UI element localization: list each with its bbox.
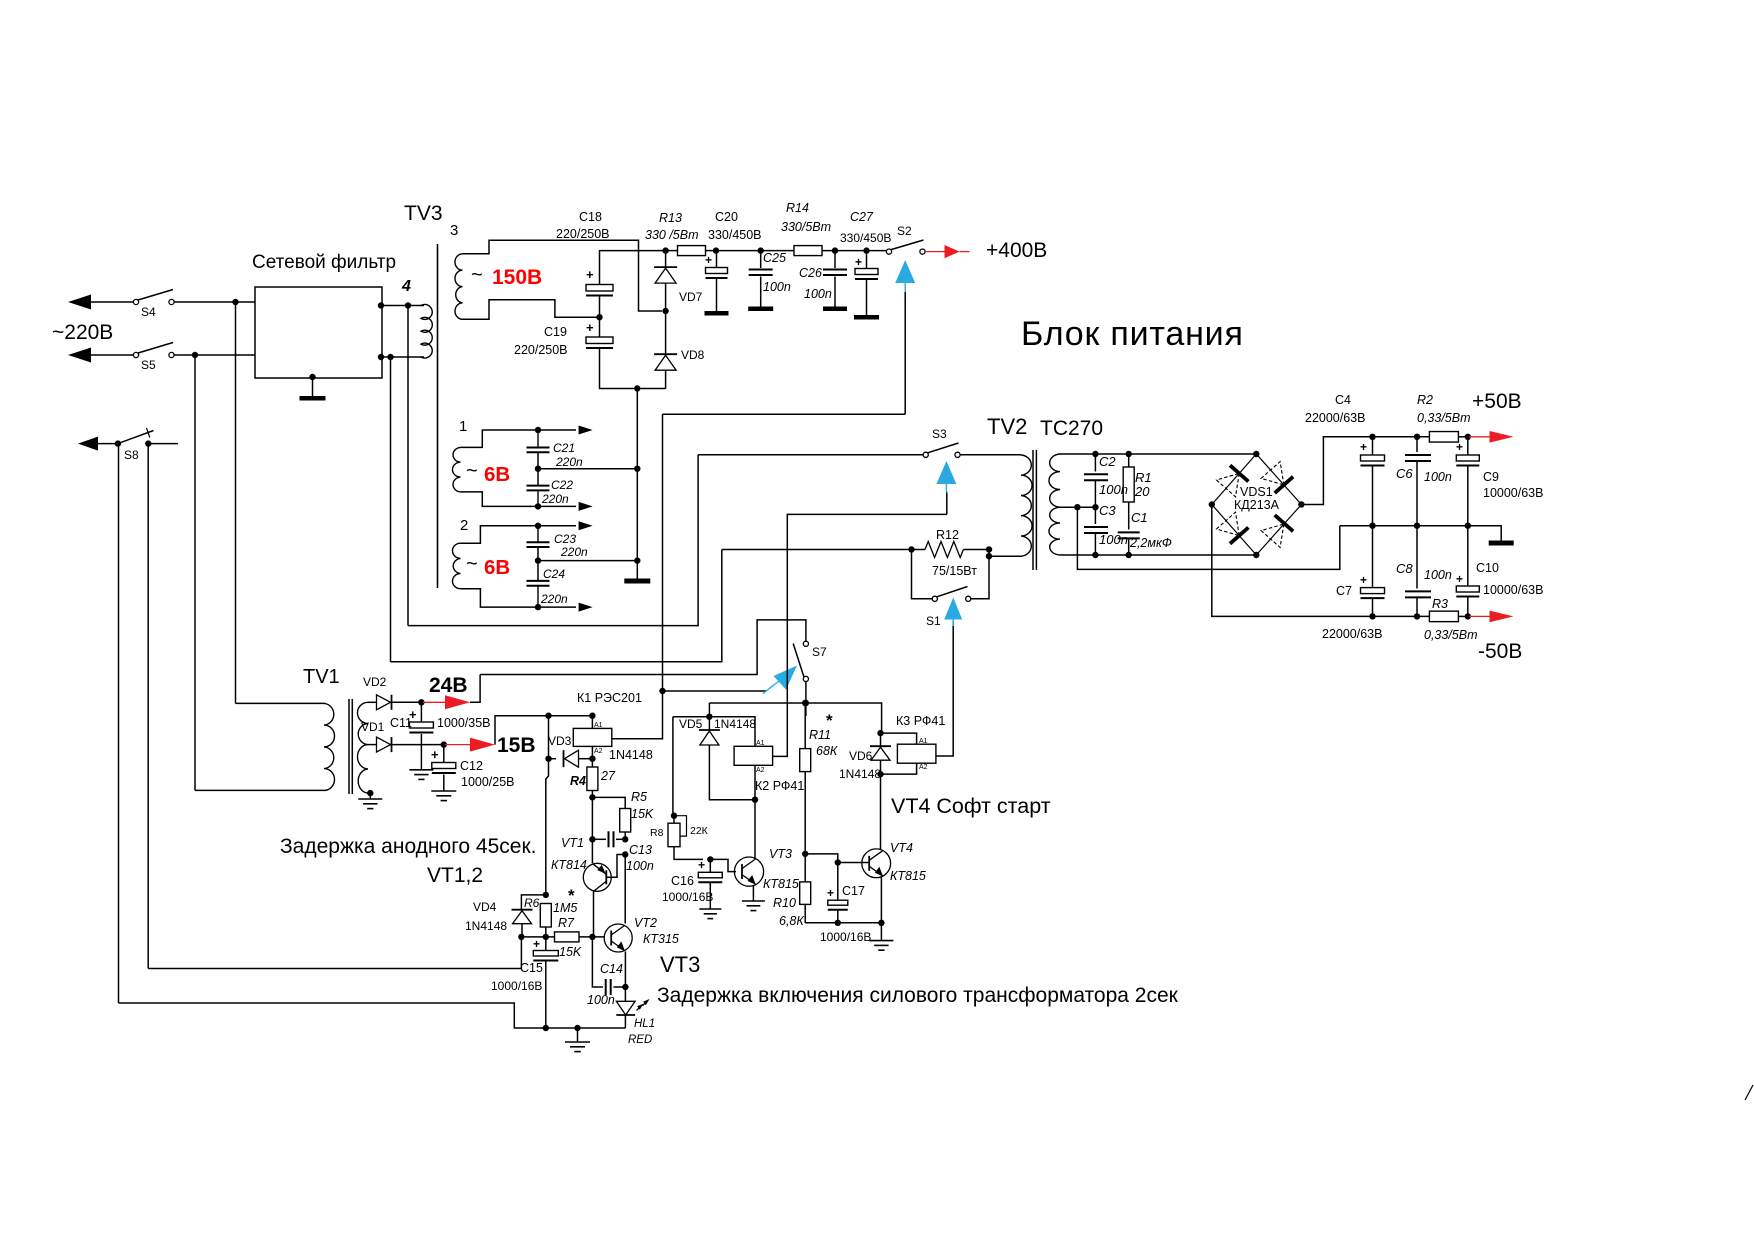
resistor R12 zigzag — [925, 542, 963, 558]
node C27 junction — [863, 247, 869, 253]
wire R5C13 net down to VT2 collector — [624, 855, 626, 924]
svg-text:1N4148: 1N4148 — [839, 767, 881, 781]
wire VD5 down — [709, 745, 755, 800]
node 24V — [418, 699, 424, 705]
wire mid to ground — [1468, 526, 1501, 541]
node 6V1 bottom — [535, 503, 541, 509]
wire 6V2 top — [461, 526, 577, 543]
wire filter to TV3 primary top — [382, 305, 424, 307]
node ~220V arrow top — [68, 295, 91, 310]
node VD4 bottom — [518, 934, 524, 940]
svg-text:VD2: VD2 — [363, 675, 387, 689]
blue arrow S7 — [774, 666, 798, 690]
svg-text:~: ~ — [471, 264, 483, 286]
wire 6V1 top — [461, 430, 577, 447]
red wire 15V — [445, 744, 470, 746]
svg-text:100n: 100n — [1099, 532, 1128, 547]
svg-text:КТ815: КТ815 — [763, 877, 799, 891]
svg-text:C11: C11 — [390, 716, 412, 730]
svg-text:C13: C13 — [629, 843, 652, 857]
node C7 bottom — [1369, 613, 1375, 619]
resistor R5 — [620, 809, 631, 833]
svg-text:330/450В: 330/450В — [840, 231, 891, 245]
svg-text:VD7: VD7 — [679, 290, 703, 304]
svg-text:VT2: VT2 — [634, 916, 657, 930]
wire R12 left node — [722, 549, 925, 551]
relay K1 — [573, 728, 612, 746]
svg-text:R13: R13 — [659, 211, 682, 225]
arrow 6V2 top — [579, 521, 593, 530]
wire K1 A2 pin — [591, 746, 593, 758]
arrow 6V2 bottom — [579, 603, 593, 612]
node C18-C19 junction — [596, 314, 602, 320]
svg-text:75/15Вт: 75/15Вт — [932, 564, 977, 578]
svg-text:TV3: TV3 — [404, 202, 443, 225]
wire drop x390 — [390, 357, 392, 662]
wire VD8 anode down — [665, 371, 667, 389]
svg-text:A1: A1 — [594, 722, 603, 729]
node C8 bottom — [1414, 613, 1420, 619]
svg-text:1000/16В: 1000/16В — [662, 890, 713, 904]
svg-text:+: + — [705, 253, 712, 267]
node K1 A1 rail — [589, 713, 595, 719]
svg-text:C7: C7 — [1336, 584, 1352, 598]
svg-text:330 /5Вт: 330 /5Вт — [645, 228, 699, 242]
resistor R8 rheostat — [673, 816, 675, 824]
bridge diode bottom-right — [1261, 524, 1284, 547]
bridge VDS1 frame — [1212, 454, 1302, 555]
svg-text:100n: 100n — [804, 287, 832, 301]
wire K1 A1 pin — [591, 716, 593, 729]
svg-text:*: * — [568, 886, 575, 905]
svg-text:100n: 100n — [763, 280, 791, 294]
diode VD3 — [549, 758, 557, 760]
wire C21-C22 — [537, 452, 539, 485]
transistor VT1 — [583, 863, 611, 891]
svg-text:10000/63В: 10000/63В — [1483, 583, 1543, 597]
node C3 bottom — [1092, 552, 1098, 558]
transformer TV1 primary winding — [324, 703, 335, 790]
node R12 right — [986, 546, 992, 552]
node C15 bottom — [543, 1025, 549, 1031]
long vertical from S8 right — [147, 444, 149, 969]
svg-text:20: 20 — [1134, 484, 1150, 499]
svg-text:C24: C24 — [543, 567, 565, 581]
transformer TV3 winding 150V — [455, 254, 463, 319]
svg-text:C1: C1 — [1131, 510, 1148, 525]
svg-text:220n: 220n — [560, 545, 588, 559]
svg-text:VT4: VT4 — [890, 841, 913, 855]
svg-text:S5: S5 — [141, 358, 156, 372]
svg-text:VT3: VT3 — [660, 952, 700, 977]
svg-text:R6: R6 — [524, 896, 540, 910]
node 15V — [441, 741, 447, 747]
arrow +50V — [1490, 431, 1514, 443]
relay K3 — [897, 744, 936, 763]
wire R12 net down — [391, 550, 722, 662]
wire VT1 emitter — [591, 839, 593, 863]
capacitor C4 — [1372, 437, 1374, 455]
node R13 out — [713, 247, 719, 253]
svg-text:C8: C8 — [1396, 561, 1413, 576]
resistor R13 — [666, 250, 678, 252]
switch S1 — [932, 596, 937, 601]
LED HL1 — [616, 1001, 635, 1015]
resistor R3 — [1429, 611, 1458, 622]
wire VD4 net to left — [148, 937, 521, 969]
wire K1 line to S7 arrow — [663, 690, 767, 692]
wire filter to TV3 primary bottom — [382, 356, 424, 358]
wire TV1 sec top to VD2 — [368, 701, 376, 703]
node ~220V arrow bottom — [68, 348, 91, 363]
node C25 junction — [758, 247, 764, 253]
transistor VT4 — [862, 849, 891, 878]
svg-text:C12: C12 — [460, 759, 483, 773]
svg-text:S4: S4 — [141, 305, 156, 319]
wire R10 bottom rail — [804, 904, 806, 922]
svg-text:2: 2 — [460, 517, 468, 534]
wire VD7 to junction — [665, 284, 667, 312]
node VD7-VD8 junction — [662, 308, 668, 314]
svg-text:1N4148: 1N4148 — [609, 748, 653, 762]
resistor R11 — [804, 703, 806, 749]
svg-text:100n: 100n — [1099, 482, 1128, 497]
capacitor C18 — [586, 285, 613, 292]
wire down to K1 right — [612, 691, 663, 739]
node C13 left — [589, 836, 595, 842]
svg-text:15K: 15K — [631, 807, 654, 821]
node VT4 emitter rail — [878, 920, 884, 926]
node R4 bottom — [589, 794, 595, 800]
wire S3 left feed — [698, 454, 923, 456]
ground VT4 — [880, 923, 882, 941]
wire drop x408 — [407, 306, 409, 626]
node R6 top — [543, 892, 549, 898]
transformer TV3 winding 6V-2 — [452, 543, 460, 589]
svg-text:C18: C18 — [579, 210, 602, 224]
svg-text:S2: S2 — [897, 224, 912, 238]
transformer TV2 core — [1032, 450, 1034, 570]
svg-text:+: + — [827, 886, 834, 900]
wire VT1 base step — [607, 855, 626, 878]
wire vertical to K1 contact line — [662, 414, 664, 691]
node 6V1 tap — [535, 466, 541, 472]
arrow 24V — [445, 695, 470, 709]
svg-text:+: + — [586, 267, 594, 282]
wire R11 down — [804, 772, 806, 882]
wire drop from S4 line — [235, 302, 237, 703]
svg-text:К3 РФ41: К3 РФ41 — [896, 714, 945, 728]
node C17 bottom — [835, 920, 841, 926]
wire S4 to filter — [174, 301, 255, 303]
svg-text:6,8К: 6,8К — [779, 914, 804, 928]
wire S3 to TV2 — [960, 454, 1021, 456]
svg-text:Задержка анодного 45сек.: Задержка анодного 45сек. — [280, 835, 536, 858]
wire 6V2 bottom — [461, 589, 577, 607]
diode VD8 — [654, 353, 677, 355]
node C9 mid — [1465, 523, 1471, 529]
transformer TV3 primary winding — [421, 304, 432, 358]
svg-text:150В: 150В — [492, 266, 542, 289]
svg-text:C20: C20 — [715, 210, 738, 224]
ground bottom rail — [577, 1028, 579, 1042]
bridge diode left-bottom — [1217, 512, 1240, 535]
wire K2 A1 pin — [754, 728, 756, 746]
capacitor C22 — [527, 485, 550, 487]
node VT4 base branch — [802, 851, 808, 857]
ground C16 — [699, 908, 721, 910]
node 6V2 bottom — [535, 604, 541, 610]
red wire +50V — [1469, 436, 1490, 438]
svg-text:+400В: +400В — [986, 239, 1047, 262]
wire TV1 sec bottom — [368, 792, 370, 794]
wire tap — [1060, 506, 1095, 508]
blue arrow S3 — [936, 461, 956, 484]
capacitor C12 — [443, 745, 445, 763]
svg-text:C9: C9 — [1483, 470, 1499, 484]
node R12 left — [908, 546, 914, 552]
blue arrow at S2 — [895, 260, 915, 283]
svg-text:VT1: VT1 — [561, 836, 584, 850]
svg-text:6В: 6В — [484, 556, 510, 579]
svg-text:Задержка включения силового тр: Задержка включения силового трансформато… — [657, 984, 1179, 1007]
svg-text:R1: R1 — [1135, 470, 1152, 485]
wire S1 net down to K3 — [936, 621, 953, 756]
svg-text:~: ~ — [466, 553, 478, 575]
node TV2 prim bottom — [986, 553, 992, 559]
svg-text:0,33/5Вт: 0,33/5Вт — [1417, 411, 1471, 425]
svg-text:VT3: VT3 — [769, 847, 792, 861]
svg-text:C21: C21 — [553, 441, 575, 455]
mark bottom right — [1745, 1085, 1753, 1100]
node VD5 top junction — [706, 714, 712, 720]
node junction S5 line — [192, 352, 198, 358]
svg-text:C6: C6 — [1396, 466, 1413, 481]
node R2 out — [1465, 434, 1471, 440]
svg-text:КТ315: КТ315 — [643, 932, 679, 946]
svg-text:ТС270: ТС270 — [1040, 417, 1103, 440]
wire K3 A2 — [881, 763, 917, 774]
node C8 mid — [1414, 523, 1420, 529]
capacitor C9 — [1467, 437, 1469, 455]
svg-text:TV2: TV2 — [987, 414, 1027, 439]
wire R4 to R5 — [592, 797, 625, 808]
node TV1 sec gnd — [367, 790, 373, 796]
node C1 bottom — [1126, 552, 1132, 558]
resistor R6 — [540, 904, 551, 928]
svg-text:24В: 24В — [429, 674, 468, 697]
wire S1 left leg — [912, 550, 933, 599]
ground 0V — [1489, 541, 1514, 546]
svg-text:VD4: VD4 — [473, 900, 497, 914]
svg-text:VDS1: VDS1 — [1240, 485, 1273, 499]
wire net to K2 A1 — [673, 717, 755, 729]
node bottom rail junction — [634, 385, 640, 391]
diode VD6 — [880, 733, 882, 746]
node R3 out — [1465, 613, 1471, 619]
node bridge bottom — [1253, 552, 1259, 558]
bridge diode left-top — [1217, 473, 1240, 496]
node tap2 at vertical — [634, 557, 640, 563]
node K1 A2 — [589, 756, 595, 762]
resistor R2 — [1429, 432, 1458, 443]
svg-text:~220В: ~220В — [52, 321, 113, 344]
svg-text:C26: C26 — [799, 266, 822, 280]
svg-text:+: + — [855, 255, 862, 269]
svg-text:R14: R14 — [786, 201, 809, 215]
resistor R4 — [591, 759, 593, 767]
wire VT4 emitter — [880, 876, 882, 922]
svg-text:2,2мкФ: 2,2мкФ — [1129, 536, 1172, 550]
svg-text:Сетевой фильтр: Сетевой фильтр — [252, 252, 396, 273]
wire C18 top to R13 node — [600, 251, 664, 285]
switch S5 — [133, 352, 138, 357]
node VD6 top — [877, 730, 883, 736]
wire TV1 sec tap to VD1 — [368, 744, 376, 746]
switch S7 — [803, 641, 808, 646]
switch S2 — [886, 249, 891, 254]
mid rail 0V — [1340, 525, 1468, 527]
svg-text:-50В: -50В — [1478, 640, 1522, 663]
svg-text:R3: R3 — [1432, 597, 1448, 611]
capacitor C21 — [527, 447, 550, 449]
svg-text:220/250В: 220/250В — [514, 343, 568, 357]
wire HL1 down — [624, 1015, 626, 1028]
resistor R7 — [521, 936, 554, 938]
node junction S4 line — [232, 299, 238, 305]
svg-text:S1: S1 — [926, 614, 941, 628]
svg-text:C15: C15 — [520, 961, 543, 975]
svg-text:S7: S7 — [812, 645, 827, 659]
svg-text:15В: 15В — [497, 734, 536, 757]
capacitor C14 — [605, 979, 607, 995]
wire R4 down to VT1 — [591, 797, 593, 839]
node C4 mid — [1369, 523, 1375, 529]
capacitor C10 — [1467, 526, 1469, 586]
svg-text:R8: R8 — [650, 827, 664, 839]
svg-text:3: 3 — [450, 222, 458, 239]
svg-text:VD3: VD3 — [548, 734, 572, 748]
svg-text:A1: A1 — [756, 740, 765, 747]
svg-text:C22: C22 — [551, 478, 573, 492]
arrow 6V1 top — [579, 426, 593, 435]
transformer TV1 core — [348, 699, 350, 794]
arrow -50V — [1490, 611, 1514, 623]
svg-text:+: + — [1360, 573, 1367, 587]
svg-text:220n: 220n — [541, 492, 569, 506]
red wire 24V — [423, 701, 446, 703]
node tap junction C2C3 — [1092, 504, 1098, 510]
wire S4 drop to TV1 top — [236, 702, 326, 704]
node gnd bottom — [574, 1025, 580, 1031]
wire drop from S5 line — [194, 355, 196, 790]
transistor VT2 — [604, 924, 632, 952]
capacitor C7 — [1372, 526, 1374, 588]
wire VD7 cathode up — [665, 251, 667, 268]
diode VD4 — [512, 909, 533, 911]
node tap1 at vertical — [634, 466, 640, 472]
node C4 top — [1369, 434, 1375, 440]
capacitor C26 — [834, 251, 836, 268]
svg-text:VD5: VD5 — [679, 717, 703, 731]
wire 15V up-right to rail — [495, 716, 590, 745]
wire 150V top lead — [463, 240, 663, 311]
transformer TV3 winding 6V-1 — [452, 447, 460, 492]
wire 150V bottom lead — [463, 300, 600, 320]
node bridge right — [1298, 501, 1304, 507]
svg-text:VD6: VD6 — [849, 749, 873, 763]
svg-text:HL1: HL1 — [634, 1018, 655, 1030]
resistor R1 — [1128, 454, 1130, 467]
svg-text:1N4148: 1N4148 — [714, 717, 756, 731]
wire TV2 sec bottom rail — [1060, 554, 1256, 556]
svg-text:220n: 220n — [540, 592, 568, 606]
wire S3 arrow down — [946, 493, 948, 515]
wire R12 to TV2 connect — [988, 550, 990, 557]
wire VT4 base — [805, 854, 838, 863]
capacitor C8 — [1416, 526, 1418, 589]
node 6V1 top — [535, 427, 541, 433]
svg-text:220/250В: 220/250В — [556, 227, 610, 241]
svg-text:C27: C27 — [850, 210, 874, 224]
wire junction to VD8 — [665, 311, 667, 354]
wire VD4 down — [521, 924, 523, 937]
svg-text:К1 РЭС201: К1 РЭС201 — [577, 691, 642, 705]
switch S4 — [133, 299, 138, 304]
svg-text:C2: C2 — [1099, 454, 1116, 469]
svg-text:4: 4 — [401, 278, 411, 295]
svg-text:+50В: +50В — [1472, 390, 1522, 413]
svg-text:220n: 220n — [555, 455, 583, 469]
resistor R10 — [800, 882, 811, 905]
red wire -50V — [1469, 615, 1490, 617]
wire C16 to VT3 base — [710, 859, 736, 871]
svg-text:100n: 100n — [626, 859, 654, 873]
svg-text:RED: RED — [628, 1034, 652, 1046]
svg-text:+: + — [533, 937, 540, 951]
wire VD3 left leg — [548, 716, 550, 759]
capacitor C16 — [709, 859, 711, 872]
svg-text:C16: C16 — [671, 874, 694, 888]
capacitor C24 — [527, 580, 550, 582]
long vertical from S8 left — [118, 444, 120, 1003]
wire S5 drop to TV1 bottom — [195, 789, 325, 791]
diode VD1 — [391, 737, 393, 752]
wire 6V1 bottom — [461, 492, 577, 507]
svg-text:1N4148: 1N4148 — [465, 919, 507, 933]
wire VT2 base down to C14 — [592, 937, 603, 987]
wire C19 bottom rail — [600, 348, 666, 389]
diode VD5 — [708, 717, 710, 730]
node C26 junction — [832, 247, 838, 253]
wire 6V1 tap right — [538, 468, 637, 470]
svg-text:R4: R4 — [570, 774, 586, 788]
wire S3 net down — [408, 455, 698, 626]
diode VD7 — [654, 266, 677, 268]
arrow +400V — [945, 245, 960, 258]
red wire S2 out — [925, 251, 946, 253]
node VT1 base junction — [622, 851, 628, 857]
arrow 6V1 bottom — [579, 502, 593, 511]
svg-text:+: + — [1360, 440, 1367, 454]
ground of filter box — [309, 374, 315, 380]
svg-text:R5: R5 — [631, 790, 647, 804]
svg-text:A2: A2 — [919, 764, 928, 771]
capacitor C2 — [1094, 454, 1096, 472]
node C6 top — [1414, 434, 1420, 440]
svg-text:1: 1 — [459, 418, 467, 435]
svg-text:C3: C3 — [1099, 503, 1116, 518]
